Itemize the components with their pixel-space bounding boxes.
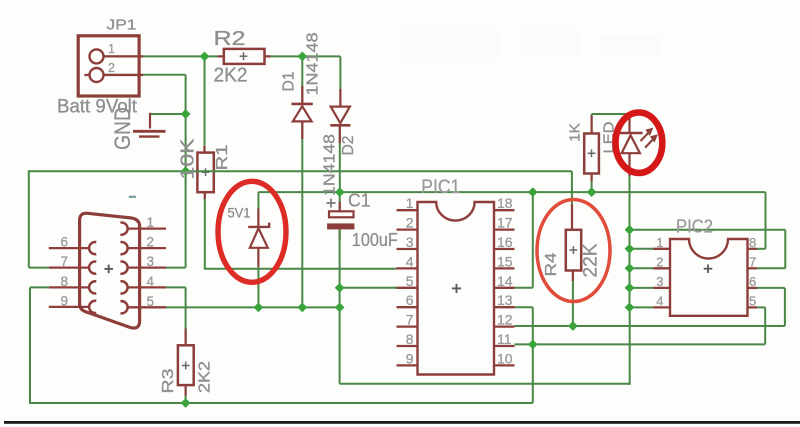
svg-text:6: 6 [406, 292, 414, 308]
svg-text:1: 1 [406, 195, 414, 211]
svg-text:2: 2 [406, 215, 414, 231]
svg-text:3: 3 [147, 254, 155, 269]
svg-text:8: 8 [406, 331, 414, 347]
svg-text:4: 4 [147, 274, 155, 289]
svg-text:2K2: 2K2 [197, 361, 214, 393]
svg-text:16: 16 [497, 234, 513, 250]
svg-text:7: 7 [749, 254, 756, 269]
svg-text:PIC2: PIC2 [676, 216, 713, 237]
svg-text:9: 9 [406, 350, 414, 366]
svg-text:10: 10 [497, 350, 513, 366]
svg-text:1: 1 [147, 215, 155, 230]
svg-text:12: 12 [497, 312, 513, 328]
svg-text:17: 17 [497, 215, 513, 231]
svg-text:1N4148: 1N4148 [305, 32, 322, 95]
svg-text:D1: D1 [281, 71, 298, 91]
svg-text:5: 5 [406, 273, 414, 289]
svg-text:PIC1: PIC1 [421, 177, 460, 198]
svg-text:2: 2 [147, 235, 155, 250]
svg-text:10K: 10K [178, 139, 198, 180]
svg-text:R3: R3 [160, 368, 177, 393]
svg-text:6: 6 [749, 274, 756, 289]
svg-text:8: 8 [61, 274, 69, 289]
svg-text:18: 18 [497, 195, 513, 211]
svg-text:11: 11 [497, 331, 512, 347]
svg-text:C1: C1 [348, 191, 371, 211]
svg-text:JP1: JP1 [107, 18, 137, 34]
svg-text:4: 4 [406, 253, 414, 269]
svg-text:6: 6 [61, 235, 69, 250]
svg-text:5: 5 [147, 294, 155, 309]
svg-text:3: 3 [406, 234, 414, 250]
svg-text:2: 2 [108, 61, 115, 75]
svg-text:9: 9 [61, 293, 69, 308]
svg-text:8: 8 [749, 235, 756, 250]
svg-text:1K: 1K [567, 123, 584, 142]
svg-text:22K: 22K [581, 243, 602, 277]
svg-text:D2: D2 [340, 135, 357, 155]
svg-text:1N4148: 1N4148 [322, 134, 339, 196]
svg-text:R1: R1 [214, 144, 231, 170]
svg-text:5V1: 5V1 [228, 205, 251, 221]
svg-text:R4: R4 [543, 252, 560, 276]
svg-text:100uF: 100uF [352, 229, 398, 250]
svg-text:14: 14 [497, 273, 513, 289]
svg-text:2K2: 2K2 [214, 65, 248, 87]
svg-text:5: 5 [749, 293, 756, 308]
svg-text:3: 3 [656, 274, 663, 289]
svg-text:1: 1 [108, 42, 115, 56]
svg-text:2: 2 [656, 254, 663, 269]
svg-text:7: 7 [406, 312, 414, 328]
svg-text:15: 15 [497, 253, 513, 269]
svg-text:1: 1 [656, 235, 663, 250]
svg-text:13: 13 [497, 292, 513, 308]
svg-text:4: 4 [656, 293, 663, 308]
svg-text:GND: GND [110, 107, 135, 150]
svg-text:R2: R2 [214, 28, 246, 50]
svg-text:7: 7 [61, 254, 69, 269]
